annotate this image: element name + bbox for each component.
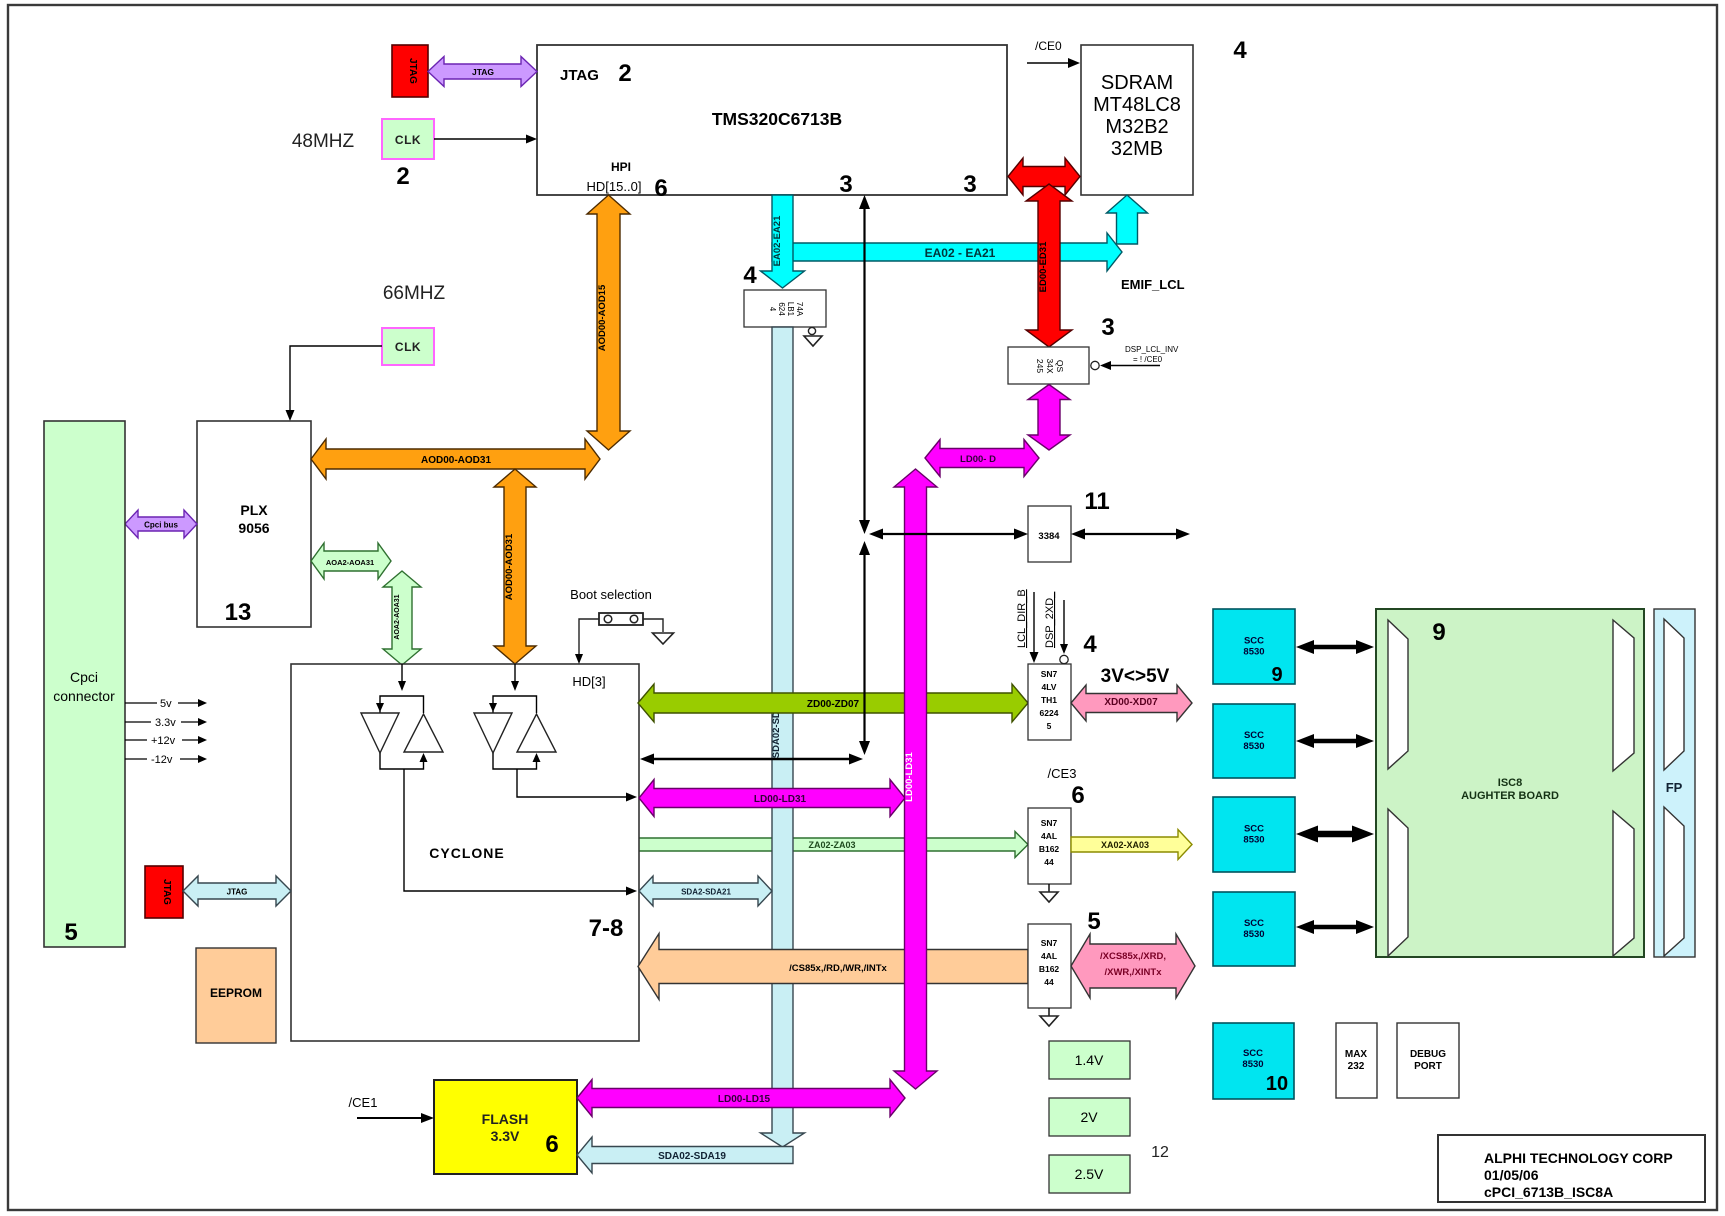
svg-text:3384: 3384 — [1038, 531, 1060, 542]
svg-text:XD00-XD07: XD00-XD07 — [1104, 697, 1158, 708]
svg-text:CLK: CLK — [395, 340, 421, 354]
bus ZA02-ZA03 (light green) — [638, 832, 1028, 858]
svg-text:13: 13 — [225, 599, 252, 626]
bus SDA02-SDA19 (pale cyan) — [577, 1137, 793, 1173]
svg-text:LD00-LD31: LD00-LD31 — [904, 751, 915, 801]
svg-text:5: 5 — [1087, 908, 1100, 935]
wire SCC3 to ISC8 — [1316, 831, 1354, 838]
svg-text:3: 3 — [963, 171, 976, 198]
bus LD00- D (magenta horizontal) — [925, 440, 1039, 477]
connector P6 (FP top) — [1664, 619, 1684, 770]
wire to 3384 (left) — [881, 533, 1016, 535]
svg-text:SCC8530: SCC8530 — [1243, 636, 1264, 658]
uart U16 SCC 8530 #5 — [1213, 1023, 1294, 1099]
svg-text:CLK: CLK — [395, 133, 421, 147]
wire SCC1 to ISC8 — [1312, 645, 1358, 650]
svg-text:SCC8530: SCC8530 — [1243, 824, 1264, 846]
svg-text:1.4V: 1.4V — [1075, 1052, 1104, 1068]
svg-text:DSP_LCL_INV: DSP_LCL_INV — [1125, 345, 1179, 354]
bus AOA2-AOA31 (vertical green) — [383, 571, 421, 665]
memory U8 EEPROM — [196, 948, 276, 1043]
svg-text:9: 9 — [1271, 664, 1282, 686]
connector P7 (FP bottom) — [1664, 807, 1684, 956]
wire CLK to DSP — [434, 138, 532, 140]
uart U13 SCC 8530 #2 — [1213, 704, 1295, 778]
wire DSP data (vertical black upper) — [863, 207, 865, 522]
svg-text:6: 6 — [1071, 782, 1084, 809]
svg-text:HD[3]: HD[3] — [572, 674, 605, 689]
wire buffer B2 out to LD00-LD31 — [517, 769, 629, 797]
svg-text:SDA2-SDA21: SDA2-SDA21 — [681, 888, 731, 897]
wire buffer B1 out to SDA2-SDA21 — [404, 769, 629, 891]
bus SDA02-SDA21 (vertical pale cyan) — [761, 327, 805, 1147]
svg-text:3: 3 — [1101, 314, 1114, 341]
svg-text:/CS85x,/RD,/WR,/INTx: /CS85x,/RD,/WR,/INTx — [789, 963, 887, 974]
regulator 2V — [1049, 1098, 1130, 1136]
svg-text:TMS320C6713B: TMS320C6713B — [712, 109, 842, 129]
bus LD00-LD15 (magenta) — [577, 1080, 905, 1117]
svg-text:DEBUGPORT: DEBUGPORT — [1410, 1049, 1446, 1072]
svg-text:12: 12 — [1151, 1144, 1169, 1161]
svg-text:SCC8530: SCC8530 — [1243, 730, 1264, 752]
xcvr U9 SN74LVTH162245 box — [1028, 664, 1071, 740]
svg-text:HD[15..0]: HD[15..0] — [587, 179, 642, 194]
buffer pair B1 (CYCLONE bidir buffer) — [401, 664, 403, 683]
transceiver U4 3384 box — [1028, 506, 1071, 562]
uart U15 SCC 8530 #4 — [1213, 892, 1295, 966]
svg-text:3: 3 — [839, 171, 852, 198]
svg-text:LD00- D: LD00- D — [960, 454, 996, 465]
regulator 1.4V — [1049, 1041, 1130, 1079]
wire SCC2 to ISC8 — [1312, 739, 1358, 744]
svg-text:3.3v: 3.3v — [155, 717, 176, 729]
transceiver U18 MAX 232 — [1336, 1023, 1377, 1098]
bus ZD00-ZD07 (olive) — [638, 684, 1028, 722]
svg-text:AOA2-AOA31: AOA2-AOA31 — [394, 594, 401, 639]
svg-text:2: 2 — [396, 163, 409, 190]
svg-text:+12v: +12v — [151, 735, 176, 747]
inverter bubble (SN74LVTH OE) — [1060, 655, 1068, 663]
bus AOD00-AOD15 (vertical orange from HPI) — [587, 195, 630, 450]
svg-text:AOD00-AOD31: AOD00-AOD31 — [504, 533, 515, 600]
oscillator CLK 66MHZ — [382, 328, 434, 365]
power -12v — [125, 758, 147, 760]
svg-text:AOA2-AOA31: AOA2-AOA31 — [326, 558, 374, 567]
svg-text:LD00-LD15: LD00-LD15 — [718, 1094, 771, 1105]
bus XD00-XD07 (pink) — [1071, 685, 1192, 721]
svg-text:2V: 2V — [1080, 1109, 1098, 1125]
svg-text:2: 2 — [618, 60, 631, 87]
svg-text:01/05/06: 01/05/06 — [1484, 1167, 1539, 1183]
bus JTAG (DSP JTAG header to DSP) — [428, 57, 537, 87]
svg-text:6: 6 — [545, 1131, 558, 1158]
connector P3 (ISC8 left bottom) — [1388, 809, 1408, 956]
svg-text:ZD00-ZD07: ZD00-ZD07 — [807, 699, 860, 710]
buffer U3 74ALB1624 box — [744, 290, 826, 327]
svg-text:SDA02-SDA19: SDA02-SDA19 — [658, 1151, 726, 1162]
svg-text:AOD00-AOD15: AOD00-AOD15 — [597, 284, 608, 351]
wire jumper to CYCLONE — [579, 619, 599, 658]
connector P5 (ISC8 right bottom) — [1613, 811, 1634, 956]
svg-text:-12v: -12v — [151, 754, 173, 766]
memory U2 SDRAM box — [1081, 45, 1193, 195]
switch U5 QS34X245 box — [1008, 347, 1089, 384]
svg-text:HPI: HPI — [611, 160, 631, 174]
svg-text:/CE0: /CE0 — [1035, 39, 1062, 53]
ground (U10) — [1048, 884, 1050, 892]
bus LD (QS245 to LD00-D, magenta vertical) — [1028, 385, 1070, 451]
svg-text:JTAG: JTAG — [227, 888, 248, 897]
bus LD00-LD31 (vertical magenta) — [894, 469, 937, 1089]
wire DSP data (vertical black lower) — [863, 553, 865, 743]
svg-text:LD00-LD31: LD00-LD31 — [754, 794, 807, 805]
buffer U10 SN74ALB16244 box — [1028, 808, 1071, 884]
buffer U11 SN74ALB16244 box 2 — [1028, 924, 1071, 1008]
connector J4 DEBUG PORT — [1397, 1023, 1459, 1098]
wire CYCLONE data (horizontal black) — [652, 758, 851, 761]
bus SDA2-SDA21 (pale cyan horizontal) — [639, 876, 772, 906]
svg-text:AOD00-AOD31: AOD00-AOD31 — [421, 455, 491, 466]
svg-text:5: 5 — [64, 919, 77, 946]
svg-text:EEPROM: EEPROM — [210, 986, 262, 1000]
svg-text:JTAG: JTAG — [560, 67, 599, 84]
wire SCC4 to ISC8 — [1312, 925, 1358, 930]
bus /XCS85x,/XRD,/XWR,/XINTx (pink) — [1071, 934, 1195, 998]
svg-text:LCL_DIR_B: LCL_DIR_B — [1016, 589, 1028, 648]
svg-text:JTAG: JTAG — [161, 879, 172, 905]
svg-text:QS34X245: QS34X245 — [1035, 358, 1065, 373]
wire DSP_LCL_INV to QS245 — [1091, 361, 1099, 369]
oscillator CLK 48MHZ — [382, 119, 434, 159]
svg-text:9: 9 — [1432, 619, 1445, 646]
memory U17 FLASH box — [434, 1080, 577, 1174]
svg-text:Boot selection: Boot selection — [570, 587, 652, 602]
power 3.3v — [125, 721, 151, 723]
svg-text:7-8: 7-8 — [589, 915, 624, 942]
svg-text:MAX232: MAX232 — [1345, 1049, 1368, 1072]
svg-text:ALPHI TECHNOLOGY CORP: ALPHI TECHNOLOGY CORP — [1484, 1150, 1673, 1166]
ground (74ALB1624 OE) — [808, 327, 815, 334]
svg-text:10: 10 — [1266, 1073, 1288, 1095]
svg-text:= ! /CE0: = ! /CE0 — [1133, 355, 1163, 364]
bus LD00-LD31 (horizontal magenta) — [639, 780, 905, 817]
svg-text:48MHZ: 48MHZ — [292, 131, 355, 152]
svg-text:SCC8530: SCC8530 — [1243, 918, 1264, 940]
svg-text:/CE1: /CE1 — [349, 1095, 378, 1110]
connector J3 JTAG header (FPGA) — [145, 866, 183, 918]
svg-text:4: 4 — [1083, 631, 1097, 658]
bus Cpci bus (purple) — [125, 510, 197, 538]
connector P2 (ISC8 left top) — [1388, 620, 1408, 769]
svg-text:5v: 5v — [160, 698, 172, 710]
uart U14 SCC 8530 #3 — [1213, 797, 1295, 872]
connector J1 JTAG header (DSP) — [392, 45, 428, 97]
DSP U1 TMS320C6713B box — [537, 45, 1007, 195]
svg-text:4: 4 — [1233, 37, 1247, 64]
panel FP box — [1654, 609, 1695, 957]
bus ED00-ED31 DSP-SDRAM (horizontal red) — [1008, 158, 1080, 195]
svg-text:CYCLONE: CYCLONE — [429, 845, 504, 861]
ground (boot selection) — [653, 633, 674, 644]
svg-text:SCC8530: SCC8530 — [1242, 1048, 1263, 1070]
svg-text:ED00-ED31: ED00-ED31 — [1038, 241, 1049, 292]
title block ALPHI — [1438, 1135, 1705, 1202]
svg-text:/CE3: /CE3 — [1048, 766, 1077, 781]
bus AOA2-AOA31 (horizontal green) — [311, 543, 391, 579]
bridge U6 PLX 9056 box — [197, 421, 311, 627]
svg-text:JTAG: JTAG — [472, 67, 494, 77]
svg-text:Cpci bus: Cpci bus — [144, 521, 178, 530]
wire jumper to ground — [643, 619, 663, 632]
svg-text:3V<>5V: 3V<>5V — [1101, 666, 1170, 687]
bus EA02-EA21 (vertical cyan from DSP) — [761, 195, 805, 288]
svg-text:JTAG: JTAG — [407, 58, 418, 84]
bus EMIF_LCL (cyan up into SDRAM) — [1107, 195, 1148, 244]
connector P4 (ISC8 right top) — [1613, 620, 1634, 771]
fpga U7 CYCLONE box — [291, 664, 639, 1041]
svg-text:XA02-XA03: XA02-XA03 — [1101, 840, 1149, 850]
svg-text:EA02 - EA21: EA02 - EA21 — [925, 246, 996, 260]
svg-text:EA02-EA21: EA02-EA21 — [772, 215, 783, 266]
ground (U11) — [1048, 1008, 1050, 1016]
bus AOD00-AOD31 (horizontal orange) — [311, 439, 600, 479]
svg-text:2.5V: 2.5V — [1075, 1166, 1104, 1182]
power +12v — [125, 739, 147, 741]
svg-text:EMIF_LCL: EMIF_LCL — [1121, 277, 1185, 292]
connector P1 Cpci connector — [44, 421, 125, 947]
svg-text:66MHZ: 66MHZ — [383, 283, 446, 304]
svg-text:4: 4 — [743, 262, 757, 289]
bus AOD00-AOD31 (vertical orange to CYCLONE) — [494, 469, 536, 664]
svg-text:DSP_2XD_: DSP_2XD_ — [1044, 591, 1056, 648]
power 5v — [125, 702, 157, 704]
wire from 3384 (right) — [1083, 533, 1178, 535]
svg-text:6: 6 — [654, 175, 667, 202]
board ISC8 DAUGHTER BOARD — [1376, 609, 1644, 957]
svg-text:ZA02-ZA03: ZA02-ZA03 — [808, 840, 855, 850]
bus /CS85x,/RD,/WR,/INTx (peach) — [638, 934, 1028, 1000]
jumper J2 Boot selection — [599, 613, 643, 625]
svg-text:cPCI_6713B_ISC8A: cPCI_6713B_ISC8A — [1484, 1184, 1613, 1200]
wire CLK 66MHz to PLX — [290, 346, 382, 417]
uart U12 SCC 8530 #1 — [1213, 609, 1295, 684]
buffer pair B2 (CYCLONE bidir buffer) — [514, 664, 516, 683]
regulator 2.5V — [1049, 1155, 1130, 1193]
bus XA02-XA03 (yellow) — [1071, 830, 1192, 860]
svg-text:11: 11 — [1084, 488, 1109, 515]
bus ED00-ED31 (vertical red to QS245) — [1026, 184, 1072, 347]
bus JTAG (FPGA) — [183, 876, 291, 906]
svg-text:FP: FP — [1666, 780, 1683, 795]
bus EA02 - EA21 (horizontal cyan) — [772, 233, 1122, 271]
